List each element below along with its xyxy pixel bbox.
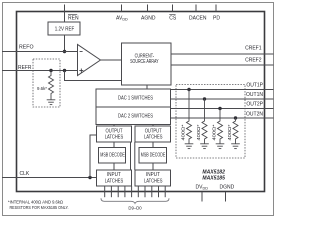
- pin label OUT1P: [246, 83, 263, 89]
- op-amp U1 (reference buffer): [78, 45, 101, 76]
- pin label REFR: [18, 65, 32, 71]
- output latches block 1: [97, 126, 132, 142]
- wire feedback from + tap to current-source array: [65, 71, 122, 81]
- node REFO junction: [63, 50, 66, 53]
- pin label CLK: [20, 171, 30, 177]
- wire OUT2N: [171, 117, 274, 119]
- ground (R2): [200, 144, 209, 149]
- svg-text:9.6k*: 9.6k*: [37, 86, 47, 91]
- pin label REFO: [19, 44, 34, 50]
- wire REFO: [2, 51, 78, 53]
- outer frame: [3, 3, 274, 216]
- resistor 9.6k: [49, 71, 54, 100]
- pin label OUT2N: [246, 111, 263, 117]
- wire CSA to DAC1 switches: [146, 85, 148, 89]
- label 9.6k*: [37, 86, 47, 91]
- label DACEN: [189, 16, 207, 22]
- connector output latch 2 to MSB decode 2: [152, 142, 154, 148]
- pin REN (tick): [64, 5, 66, 12]
- svg-text:400Ω*: 400Ω*: [211, 124, 216, 140]
- svg-text:LATCHES: LATCHES: [105, 178, 124, 184]
- svg-text:SOURCE ARRAY: SOURCE ARRAY: [130, 59, 159, 65]
- svg-text:OUT1N: OUT1N: [246, 92, 263, 98]
- pin label OUT2P: [246, 102, 263, 108]
- svg-text:MSB DECODE: MSB DECODE: [141, 152, 166, 158]
- node OUT1N junction: [203, 97, 206, 100]
- resistor 400 ohm (1): [187, 90, 192, 144]
- svg-text:400Ω*: 400Ω*: [227, 124, 232, 140]
- wire CLK: [2, 177, 97, 179]
- label 400ohm (3): [211, 124, 216, 140]
- svg-text:LATCHES: LATCHES: [144, 178, 163, 184]
- svg-text:OUTPUT: OUTPUT: [145, 128, 162, 134]
- node CLK junction: [88, 176, 91, 179]
- resistor 400 ohm (2): [202, 99, 207, 144]
- wire op-amp output to current-source array: [101, 59, 122, 61]
- wire OUT1P: [171, 89, 274, 91]
- connector DAC2 to output latch 2: [152, 125, 154, 127]
- wire REN to 1.2V REF: [64, 12, 66, 23]
- svg-text:MSB DECODE: MSB DECODE: [100, 152, 125, 158]
- pin label DVDD: [196, 185, 209, 191]
- resistor 400 ohm (4): [233, 118, 238, 144]
- svg-text:*INTERNAL 400Ω AND 9.6kΩ: *INTERNAL 400Ω AND 9.6kΩ: [8, 200, 64, 205]
- svg-text:400Ω*: 400Ω*: [180, 124, 185, 140]
- DAC 2 switches block: [96, 107, 171, 125]
- pin PD (tick): [215, 5, 217, 12]
- node feedback tap junction: [63, 69, 66, 72]
- svg-text:LATCHES: LATCHES: [144, 135, 163, 141]
- pin DVDD (tick): [201, 192, 203, 202]
- ground (R3): [216, 144, 225, 149]
- 1.2V REF block: [48, 22, 80, 35]
- svg-text:CREF2: CREF2: [245, 57, 262, 63]
- pin CS (tick): [172, 5, 174, 12]
- svg-text:REN: REN: [68, 16, 79, 22]
- data bus pins D9-D0 (10 ticks): [105, 186, 166, 197]
- connector DAC2 to output latch 1: [113, 125, 115, 127]
- svg-text:OUT1P: OUT1P: [246, 83, 263, 89]
- ground (R1): [185, 144, 194, 149]
- svg-text:REFO: REFO: [19, 44, 34, 50]
- wire 1.2V REF to REFO node: [64, 35, 66, 52]
- part name MAX5182 / MAX5185: [202, 169, 225, 181]
- svg-text:INPUT: INPUT: [146, 172, 160, 178]
- output latches block 2: [135, 126, 171, 142]
- ground (R4): [231, 144, 240, 149]
- wire LSB bypass 2: [134, 142, 136, 170]
- node OUT2P junction: [218, 107, 221, 110]
- ground (9.6k): [47, 100, 56, 105]
- pin AGND (tick): [147, 5, 149, 12]
- resistor 400 ohm (3): [218, 109, 223, 144]
- DAC 1 switches block: [96, 89, 171, 107]
- svg-text:MAX5185: MAX5185: [202, 176, 225, 182]
- label AVDD: [116, 16, 128, 22]
- svg-text:CREF1: CREF1: [245, 46, 262, 52]
- footnote: [8, 200, 69, 211]
- pin label CREF2: [245, 57, 262, 63]
- input latches block 2: [135, 170, 171, 186]
- label AGND: [141, 16, 156, 22]
- label 400ohm (4): [227, 124, 232, 140]
- svg-text:INPUT: INPUT: [107, 172, 121, 178]
- wire LSB bypass 1: [130, 142, 132, 170]
- node resistor tap junction: [49, 69, 52, 72]
- pin label OUT1N: [246, 92, 263, 98]
- label 400ohm (1): [180, 124, 185, 140]
- svg-text:DAC 2 SWITCHES: DAC 2 SWITCHES: [118, 113, 154, 119]
- label D9-D0: [128, 205, 142, 210]
- connector MSB decode 1 to input latch 1: [113, 163, 115, 170]
- dashed box internal 9.6k resistor: [33, 59, 60, 107]
- svg-text:OUTPUT: OUTPUT: [106, 128, 123, 134]
- pin label DGND: [220, 185, 235, 191]
- pin DACEN (tick): [195, 5, 197, 12]
- svg-text:OUT2N: OUT2N: [246, 111, 263, 117]
- label 400ohm (2): [196, 124, 201, 140]
- MSB decode block 1: [99, 148, 126, 164]
- svg-text:RESISTORS FOR MAX5185 ONLY.: RESISTORS FOR MAX5185 ONLY.: [10, 205, 69, 210]
- label REN (overline): [68, 15, 79, 22]
- node OUT1P junction: [187, 88, 190, 91]
- pin AVDD (tick): [121, 5, 123, 12]
- brace for data bus: [101, 198, 169, 203]
- wire CREF2: [171, 64, 274, 66]
- MSB decode block 2: [139, 148, 167, 164]
- dashed box internal 400 ohm load resistors: [176, 85, 245, 159]
- svg-text:DACEN: DACEN: [189, 16, 207, 22]
- IC boundary MAX5182/MAX5185: [17, 12, 265, 192]
- svg-text:MAX5182: MAX5182: [202, 169, 225, 175]
- wire REFR: [2, 70, 78, 72]
- svg-text:DAC 1 SWITCHES: DAC 1 SWITCHES: [118, 96, 154, 102]
- wire CLK branch to output latches: [90, 135, 97, 178]
- svg-text:LATCHES: LATCHES: [105, 135, 124, 141]
- svg-text:CLK: CLK: [20, 171, 30, 177]
- label PD: [213, 16, 220, 22]
- label CS (overline): [169, 15, 177, 22]
- svg-text:PD: PD: [213, 16, 220, 22]
- svg-text:400Ω*: 400Ω*: [196, 124, 201, 140]
- node OUT2N junction: [234, 116, 237, 119]
- svg-text:AGND: AGND: [141, 16, 156, 22]
- input latches block 1: [97, 170, 132, 186]
- svg-text:D9–D0: D9–D0: [128, 205, 142, 210]
- svg-text:DGND: DGND: [220, 185, 235, 191]
- connector MSB decode 2 to input latch 2: [152, 163, 154, 170]
- svg-text:OUT2P: OUT2P: [246, 102, 263, 108]
- wire CREF1: [171, 53, 274, 55]
- current-source array U2: [122, 43, 172, 85]
- pin label CREF1: [245, 46, 262, 52]
- wire OUT1N: [171, 98, 274, 100]
- svg-text:CS: CS: [169, 16, 177, 22]
- connector output latch 1 to MSB decode 1: [113, 142, 115, 148]
- wire OUT2P: [171, 108, 274, 110]
- pin DGND (tick): [225, 192, 227, 202]
- svg-text:1.2V REF: 1.2V REF: [55, 27, 75, 33]
